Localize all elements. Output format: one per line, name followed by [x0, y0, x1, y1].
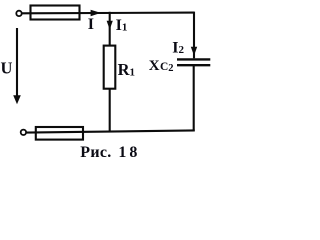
svg-text:I2: I2 [172, 40, 184, 57]
node: top terminal circle [16, 11, 21, 16]
svg-text:18: 18 [118, 144, 140, 161]
wire: top horizontal run from terminal to top-right corner [22, 12, 194, 15]
arrowhead: current I2 direction [191, 47, 197, 56]
fuse/box element top (two-terminal rectangle with wire through) [31, 6, 80, 20]
svg-text:R1: R1 [118, 60, 135, 79]
wire: vertical branch to R1 [109, 12, 111, 46]
wire: capacitor bottom plate down to bottom rail [193, 65, 195, 131]
arrow: voltage U direction (downward) [16, 28, 18, 98]
wire: R1 bottom to bottom rail [109, 89, 111, 133]
svg-text:XC2: XC2 [149, 58, 174, 74]
svg-text:I: I [88, 16, 94, 33]
node: bottom terminal circle [21, 130, 26, 135]
wire: right vertical from top-right corner to capacitor top plate [193, 12, 195, 59]
arrowhead: current I1 direction [107, 21, 113, 30]
capacitor C2 top plate [177, 58, 210, 60]
svg-text:I1: I1 [116, 17, 128, 34]
wire: bottom horizontal rail [26, 130, 194, 132]
fuse/box element bottom (two-terminal rectangle with wire through) [36, 127, 83, 140]
svg-text:Рис.: Рис. [80, 144, 111, 161]
svg-text:U: U [1, 59, 13, 78]
resistor R1 body [104, 46, 116, 89]
capacitor C2 bottom plate [177, 64, 210, 66]
arrowhead: current I direction on top wire [91, 10, 101, 17]
